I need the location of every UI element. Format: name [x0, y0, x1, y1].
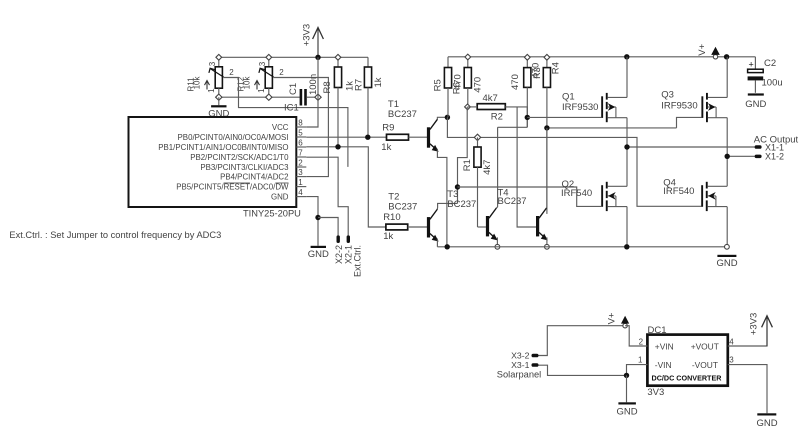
- wire T4 collector: [545, 128, 548, 208]
- resistor R2: [477, 104, 505, 110]
- svg-text:IRF540: IRF540: [561, 188, 592, 199]
- junction node B: [525, 115, 530, 120]
- wire R12 wiper to ADC2 pin: [274, 78, 329, 177]
- junction pin R11 top: [216, 54, 222, 60]
- resistor R3: [526, 57, 528, 67]
- svg-text:Solarpanel: Solarpanel: [497, 370, 541, 380]
- ground GND under R11: [218, 97, 220, 105]
- svg-text:IC1: IC1: [284, 103, 299, 114]
- capacitor C1: [300, 89, 303, 106]
- junction GND node: [315, 215, 320, 220]
- wire V+ rail: [448, 56, 755, 58]
- terminal X2-2: [337, 235, 340, 243]
- junction R6-R2: [465, 104, 471, 110]
- ground GND DC out: [757, 413, 776, 415]
- svg-text:1k: 1k: [373, 77, 384, 87]
- resistor R10: [386, 224, 408, 230]
- svg-text:1: 1: [207, 88, 216, 93]
- potentiometer R11: [218, 57, 220, 67]
- junction V+ Q3: [724, 54, 729, 59]
- junction Q2 gate node: [455, 184, 460, 189]
- svg-text:3: 3: [729, 355, 734, 364]
- IC DC1 box: [647, 335, 727, 386]
- junction pin R12 top: [266, 54, 272, 60]
- junction T1 emitter rail: [445, 244, 450, 249]
- svg-text:470: 470: [530, 63, 541, 79]
- wire Q4 drain: [726, 156, 728, 186]
- resistor R5: [447, 57, 449, 68]
- svg-text:R2: R2: [491, 112, 503, 123]
- IC U1 TINY25 box: [129, 117, 297, 207]
- wire +3V3 rail: [219, 56, 368, 58]
- wire node C horizontal: [547, 127, 677, 129]
- junction on 3V3 rail: [315, 55, 320, 60]
- wire V+ to pin2: [625, 326, 647, 346]
- wire X3-1 to -VIN: [539, 365, 648, 376]
- terminal X3-1 pad: [532, 363, 539, 367]
- resistor R9: [387, 134, 409, 140]
- junction diamond R11 bottom: [216, 94, 222, 100]
- svg-text:6: 6: [298, 138, 303, 147]
- svg-text:4k7: 4k7: [483, 93, 498, 104]
- terminal X1-2 pad: [755, 155, 762, 159]
- svg-text:VCC: VCC: [272, 123, 289, 132]
- wire -VOUT to GND: [728, 365, 767, 414]
- wire X3-2 to +VIN: [539, 326, 626, 356]
- svg-text:Q3: Q3: [661, 90, 674, 101]
- svg-text:GND: GND: [308, 249, 329, 260]
- junction R8-PB1: [335, 144, 340, 149]
- svg-text:1: 1: [638, 355, 643, 364]
- svg-text:+: +: [749, 59, 754, 69]
- resistor R6: [467, 57, 469, 68]
- svg-text:V+: V+: [697, 43, 708, 55]
- svg-text:+3V3: +3V3: [301, 24, 312, 46]
- svg-text:R1: R1: [462, 159, 473, 171]
- svg-text:Ext.Ctrl.: Ext.Ctrl.: [353, 245, 363, 277]
- svg-text:BC237: BC237: [447, 199, 476, 210]
- capacitor C2: [754, 57, 756, 69]
- svg-text:10k: 10k: [242, 76, 251, 90]
- power +3V3 arrow DC out: [766, 316, 768, 346]
- wire PB2 pin7 to X2-1: [306, 157, 348, 236]
- svg-text:1: 1: [298, 178, 303, 187]
- wire R2 left: [468, 106, 478, 108]
- svg-text:BC237: BC237: [388, 201, 417, 212]
- transistor T3: [486, 216, 489, 236]
- svg-text:3: 3: [208, 61, 217, 66]
- svg-text:DC/DC CONVERTER: DC/DC CONVERTER: [652, 373, 723, 382]
- svg-text:Ext.Ctrl. : Set Jumper to cont: Ext.Ctrl. : Set Jumper to control freque…: [9, 230, 221, 240]
- wire AC output X1-1: [627, 146, 755, 148]
- svg-text:1k: 1k: [381, 142, 391, 153]
- svg-text:5: 5: [298, 128, 303, 137]
- svg-text:PB5/PCINT5/RESET/ADC0/DW: PB5/PCINT5/RESET/ADC0/DW: [176, 183, 289, 192]
- svg-text:R4: R4: [551, 62, 562, 74]
- svg-text:3: 3: [298, 168, 303, 177]
- wire Q2 source to rail: [626, 207, 628, 247]
- svg-text:470: 470: [510, 74, 521, 90]
- wire Q4 source to rail: [726, 207, 728, 247]
- wire PB0 pin5 to R9: [306, 136, 386, 138]
- MOSFET Q4 IRF540: [701, 185, 703, 207]
- svg-text:GND: GND: [616, 407, 637, 418]
- wire T1 emitter to ground rail: [437, 149, 447, 247]
- svg-text:R5: R5: [432, 79, 443, 91]
- junction node C: [544, 125, 549, 130]
- transistor T4: [536, 216, 539, 236]
- wire R11 wiper to ADC3 node: [224, 78, 348, 167]
- junction X1-1 node: [624, 144, 629, 149]
- svg-text:R9: R9: [382, 122, 394, 133]
- transistor T2: [427, 217, 430, 237]
- svg-text:-VOUT: -VOUT: [692, 360, 718, 370]
- terminal X2-1: [347, 235, 350, 243]
- MOSFET Q1 IRF9530: [601, 96, 603, 118]
- wire T2 collector: [437, 203, 457, 209]
- power V+ symbol DC input: [623, 324, 627, 328]
- svg-text:R10: R10: [383, 212, 400, 223]
- junction -VIN GND: [624, 373, 629, 378]
- wire PB1 pin6 to R10: [306, 147, 386, 227]
- svg-text:X3-1: X3-1: [511, 360, 530, 370]
- svg-text:R8: R8: [322, 81, 333, 93]
- junction diamond R1 top: [474, 134, 480, 140]
- circle T4 emitter on rail: [545, 244, 550, 249]
- svg-text:IRF9530: IRF9530: [562, 102, 598, 113]
- MOSFET Q2 IRF540: [601, 185, 603, 207]
- IC pin stubs and numbers: [296, 126, 306, 128]
- svg-text:X2-2: X2-2: [334, 245, 344, 264]
- junction Q2 source rail: [624, 244, 629, 249]
- wire ground rail: [437, 246, 727, 248]
- power +3V3 arrow: [317, 28, 319, 57]
- wire Q3 drain: [726, 118, 728, 157]
- junction pin R4 top: [544, 54, 550, 60]
- svg-text:2: 2: [639, 338, 644, 347]
- potentiometer R12: [268, 57, 270, 67]
- svg-text:7: 7: [298, 148, 303, 157]
- junction R7-PB0: [365, 135, 370, 140]
- node A junction: [445, 115, 450, 120]
- svg-text:PB4/PCINT4/ADC2: PB4/PCINT4/ADC2: [220, 173, 288, 182]
- wire Q2 drain: [626, 147, 628, 186]
- junction diamond R12 bottom: [266, 94, 272, 100]
- junction pin R6 top: [465, 54, 471, 60]
- svg-text:GND: GND: [745, 99, 766, 110]
- ground GND below IC: [311, 246, 326, 248]
- wire GND to X2-2: [318, 218, 338, 237]
- wire Q1 gate line: [527, 116, 601, 118]
- wire R9 to T1 base: [409, 136, 428, 138]
- svg-text:IRF9530: IRF9530: [661, 101, 697, 112]
- svg-text:PB2/PCINT2/SCK/ADC1/T0: PB2/PCINT2/SCK/ADC1/T0: [190, 153, 289, 162]
- wire R2 right to node B: [505, 107, 527, 127]
- svg-text:R7: R7: [354, 79, 365, 91]
- svg-text:+3V3: +3V3: [748, 313, 759, 335]
- circle T3 emitter on rail: [495, 244, 500, 249]
- wire T3 collector: [496, 127, 497, 208]
- wire node B horizontal: [498, 126, 528, 128]
- svg-text:2: 2: [279, 68, 284, 77]
- junction pin R8 top: [335, 54, 341, 60]
- wire pot bottoms to C1: [219, 96, 300, 98]
- wire T2 emitter to rail: [436, 239, 438, 247]
- MOSFET Q3 IRF9530: [701, 96, 703, 118]
- svg-text:PB3/PCINT3/CLKI/ADC3: PB3/PCINT3/CLKI/ADC3: [200, 163, 289, 172]
- wire R1 to T3 base: [478, 226, 487, 228]
- junction V+ Q1: [624, 54, 629, 59]
- svg-text:1: 1: [257, 88, 266, 93]
- svg-text:+VIN: +VIN: [655, 342, 674, 352]
- ground GND under C2: [748, 93, 764, 95]
- svg-text:C1: C1: [288, 83, 299, 95]
- svg-text:4: 4: [729, 338, 734, 347]
- wire node A to Q4 gate: [447, 117, 701, 206]
- svg-text:1k: 1k: [383, 231, 393, 242]
- svg-text:-VIN: -VIN: [655, 360, 672, 370]
- junction pin R3 top: [524, 54, 530, 60]
- wire R10 to T2 base: [408, 226, 428, 228]
- wire VCC pin8: [306, 57, 318, 127]
- svg-text:4: 4: [298, 188, 303, 197]
- svg-text:BC237: BC237: [498, 196, 527, 207]
- wire Q1 drain: [626, 118, 628, 147]
- wire Q2 gate line: [458, 187, 602, 206]
- power V+ symbol: [713, 55, 717, 59]
- wire T1 collector to node A: [437, 117, 447, 119]
- svg-text:3: 3: [258, 61, 267, 66]
- svg-text:V+: V+: [607, 312, 618, 324]
- svg-text:470: 470: [472, 77, 483, 93]
- svg-text:+VOUT: +VOUT: [691, 342, 719, 352]
- svg-text:GND: GND: [756, 418, 777, 429]
- svg-text:4k7: 4k7: [482, 160, 493, 175]
- terminal X3-2 pad: [532, 354, 539, 358]
- svg-text:PB0/PCINT0/AIN0/OC0A/MOSI: PB0/PCINT0/AIN0/OC0A/MOSI: [178, 133, 289, 142]
- wire R6 to T2 collector net: [458, 107, 468, 203]
- svg-text:GND: GND: [271, 193, 289, 202]
- resistor R1: [477, 137, 479, 147]
- svg-text:100u: 100u: [762, 77, 783, 88]
- svg-text:TINY25-20PU: TINY25-20PU: [243, 209, 301, 219]
- wire +VOUT to +3V3: [728, 317, 767, 346]
- svg-text:BC237: BC237: [388, 109, 417, 120]
- svg-text:10k: 10k: [192, 76, 201, 90]
- svg-text:DC1: DC1: [648, 325, 667, 336]
- junction diamond C1-VCC: [315, 94, 321, 100]
- terminal X1-1 pad: [755, 145, 762, 149]
- wire Q3 source to rail: [726, 57, 728, 98]
- wire T4 emitter: [546, 237, 548, 246]
- svg-text:GND: GND: [716, 258, 737, 269]
- svg-text:X1-2: X1-2: [765, 152, 784, 162]
- svg-text:2: 2: [229, 68, 234, 77]
- svg-text:8: 8: [298, 118, 303, 127]
- svg-text:IRF540: IRF540: [663, 186, 694, 197]
- svg-text:R6: R6: [452, 82, 463, 94]
- svg-text:PB1/PCINT1/AIN1/OC0B/INT0/MISO: PB1/PCINT1/AIN1/OC0B/INT0/MISO: [158, 143, 288, 152]
- resistor R8: [337, 57, 339, 67]
- circle ground rail end: [725, 244, 730, 249]
- resistor R7: [367, 57, 369, 67]
- svg-text:C2: C2: [764, 58, 776, 69]
- wire Q3 gate line: [677, 117, 702, 128]
- ground GND of bridge: [717, 255, 736, 257]
- svg-text:3V3: 3V3: [647, 387, 664, 398]
- resistor R4: [546, 57, 548, 67]
- wire GND pin4: [306, 197, 318, 246]
- wire AC output X1-2: [727, 155, 755, 157]
- junction X1-2 node: [725, 154, 730, 159]
- transistor T1: [427, 127, 430, 147]
- svg-text:Q1: Q1: [562, 92, 575, 103]
- wire T3 emitter: [496, 237, 498, 246]
- wire Q1 source to rail: [626, 57, 628, 98]
- wire R2 to T4 base: [517, 107, 536, 227]
- ground GND DC input: [618, 402, 636, 404]
- svg-text:2: 2: [298, 158, 303, 167]
- wire to GND DC input: [626, 375, 628, 402]
